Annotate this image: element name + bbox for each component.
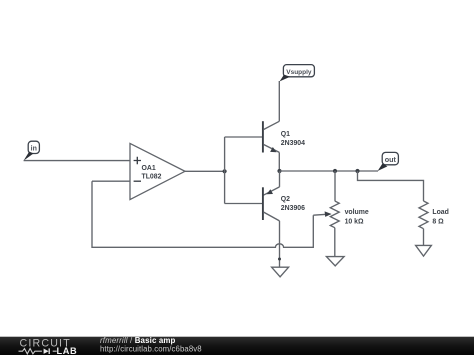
ground below Q2 — [272, 267, 289, 277]
svg-text:Q2: Q2 — [281, 196, 290, 203]
svg-text:2N3904: 2N3904 — [281, 140, 305, 147]
svg-text:http://circuitlab.com/c6ba8v8: http://circuitlab.com/c6ba8v8 — [100, 344, 202, 353]
wire: output node down to volume pot — [334, 171, 336, 201]
ground below load — [416, 245, 432, 256]
wire: Q2 collector down to ground — [279, 221, 281, 267]
wire: load bottom to ground — [423, 229, 425, 246]
svg-text:LAB: LAB — [57, 346, 78, 355]
svg-text:Load: Load — [432, 209, 448, 216]
node: small dot on collector-ground wire — [278, 258, 281, 261]
footer bar — [0, 337, 474, 355]
wire: base bus vertical and stubs to Q1/Q2 bases — [225, 137, 263, 204]
node: junction dot pot branch — [333, 169, 337, 173]
op-amp U1 OA1 TL082 — [130, 143, 185, 199]
wire: feedback path with hop over Q2 collector wire — [92, 181, 313, 247]
ground below pot — [326, 257, 344, 266]
wire: Q1 collector up to supply — [278, 81, 280, 121]
svg-text:2N3906: 2N3906 — [281, 205, 305, 212]
svg-text:volume: volume — [345, 209, 369, 216]
svg-text:Q1: Q1 — [281, 131, 290, 138]
wire: pot wiper lead with arrow — [313, 213, 326, 216]
svg-text:OA1: OA1 — [142, 165, 156, 172]
svg-text:in: in — [31, 146, 37, 153]
wire: op-amp inverting input stub — [92, 180, 130, 182]
resistor Load 8 ohm: zigzag body — [419, 201, 428, 229]
logo doodle: zigzag + diode — [19, 349, 57, 354]
svg-text:8 Ω: 8 Ω — [432, 218, 444, 225]
node: junction dot load branch — [355, 169, 359, 173]
wire: op-amp output to base node — [185, 170, 225, 172]
wire: load branch down, right and down to resistor — [358, 171, 424, 201]
node: output junction dot — [277, 169, 281, 173]
wire: pot bottom to ground — [334, 228, 336, 257]
node out: flag label — [378, 152, 399, 171]
transistor Q2 2N3906 — [263, 171, 305, 221]
potentiometer volume 10k: zigzag body — [330, 201, 339, 228]
node in: flag label — [24, 141, 40, 160]
wire: input net from in flag to op-amp + input — [24, 160, 130, 162]
svg-text:TL082: TL082 — [142, 174, 162, 181]
svg-text:10 kΩ: 10 kΩ — [345, 218, 364, 225]
wire: output net horizontal to out flag — [280, 170, 379, 172]
wire: Q1 emitter down to output node — [278, 152, 280, 171]
svg-text:Vsupply: Vsupply — [286, 69, 312, 76]
transistor Q1 2N3904 — [263, 121, 305, 152]
node: junction dot at base tie point — [223, 169, 227, 173]
svg-text:out: out — [385, 155, 397, 164]
node Vsupply: flag label — [280, 65, 315, 82]
